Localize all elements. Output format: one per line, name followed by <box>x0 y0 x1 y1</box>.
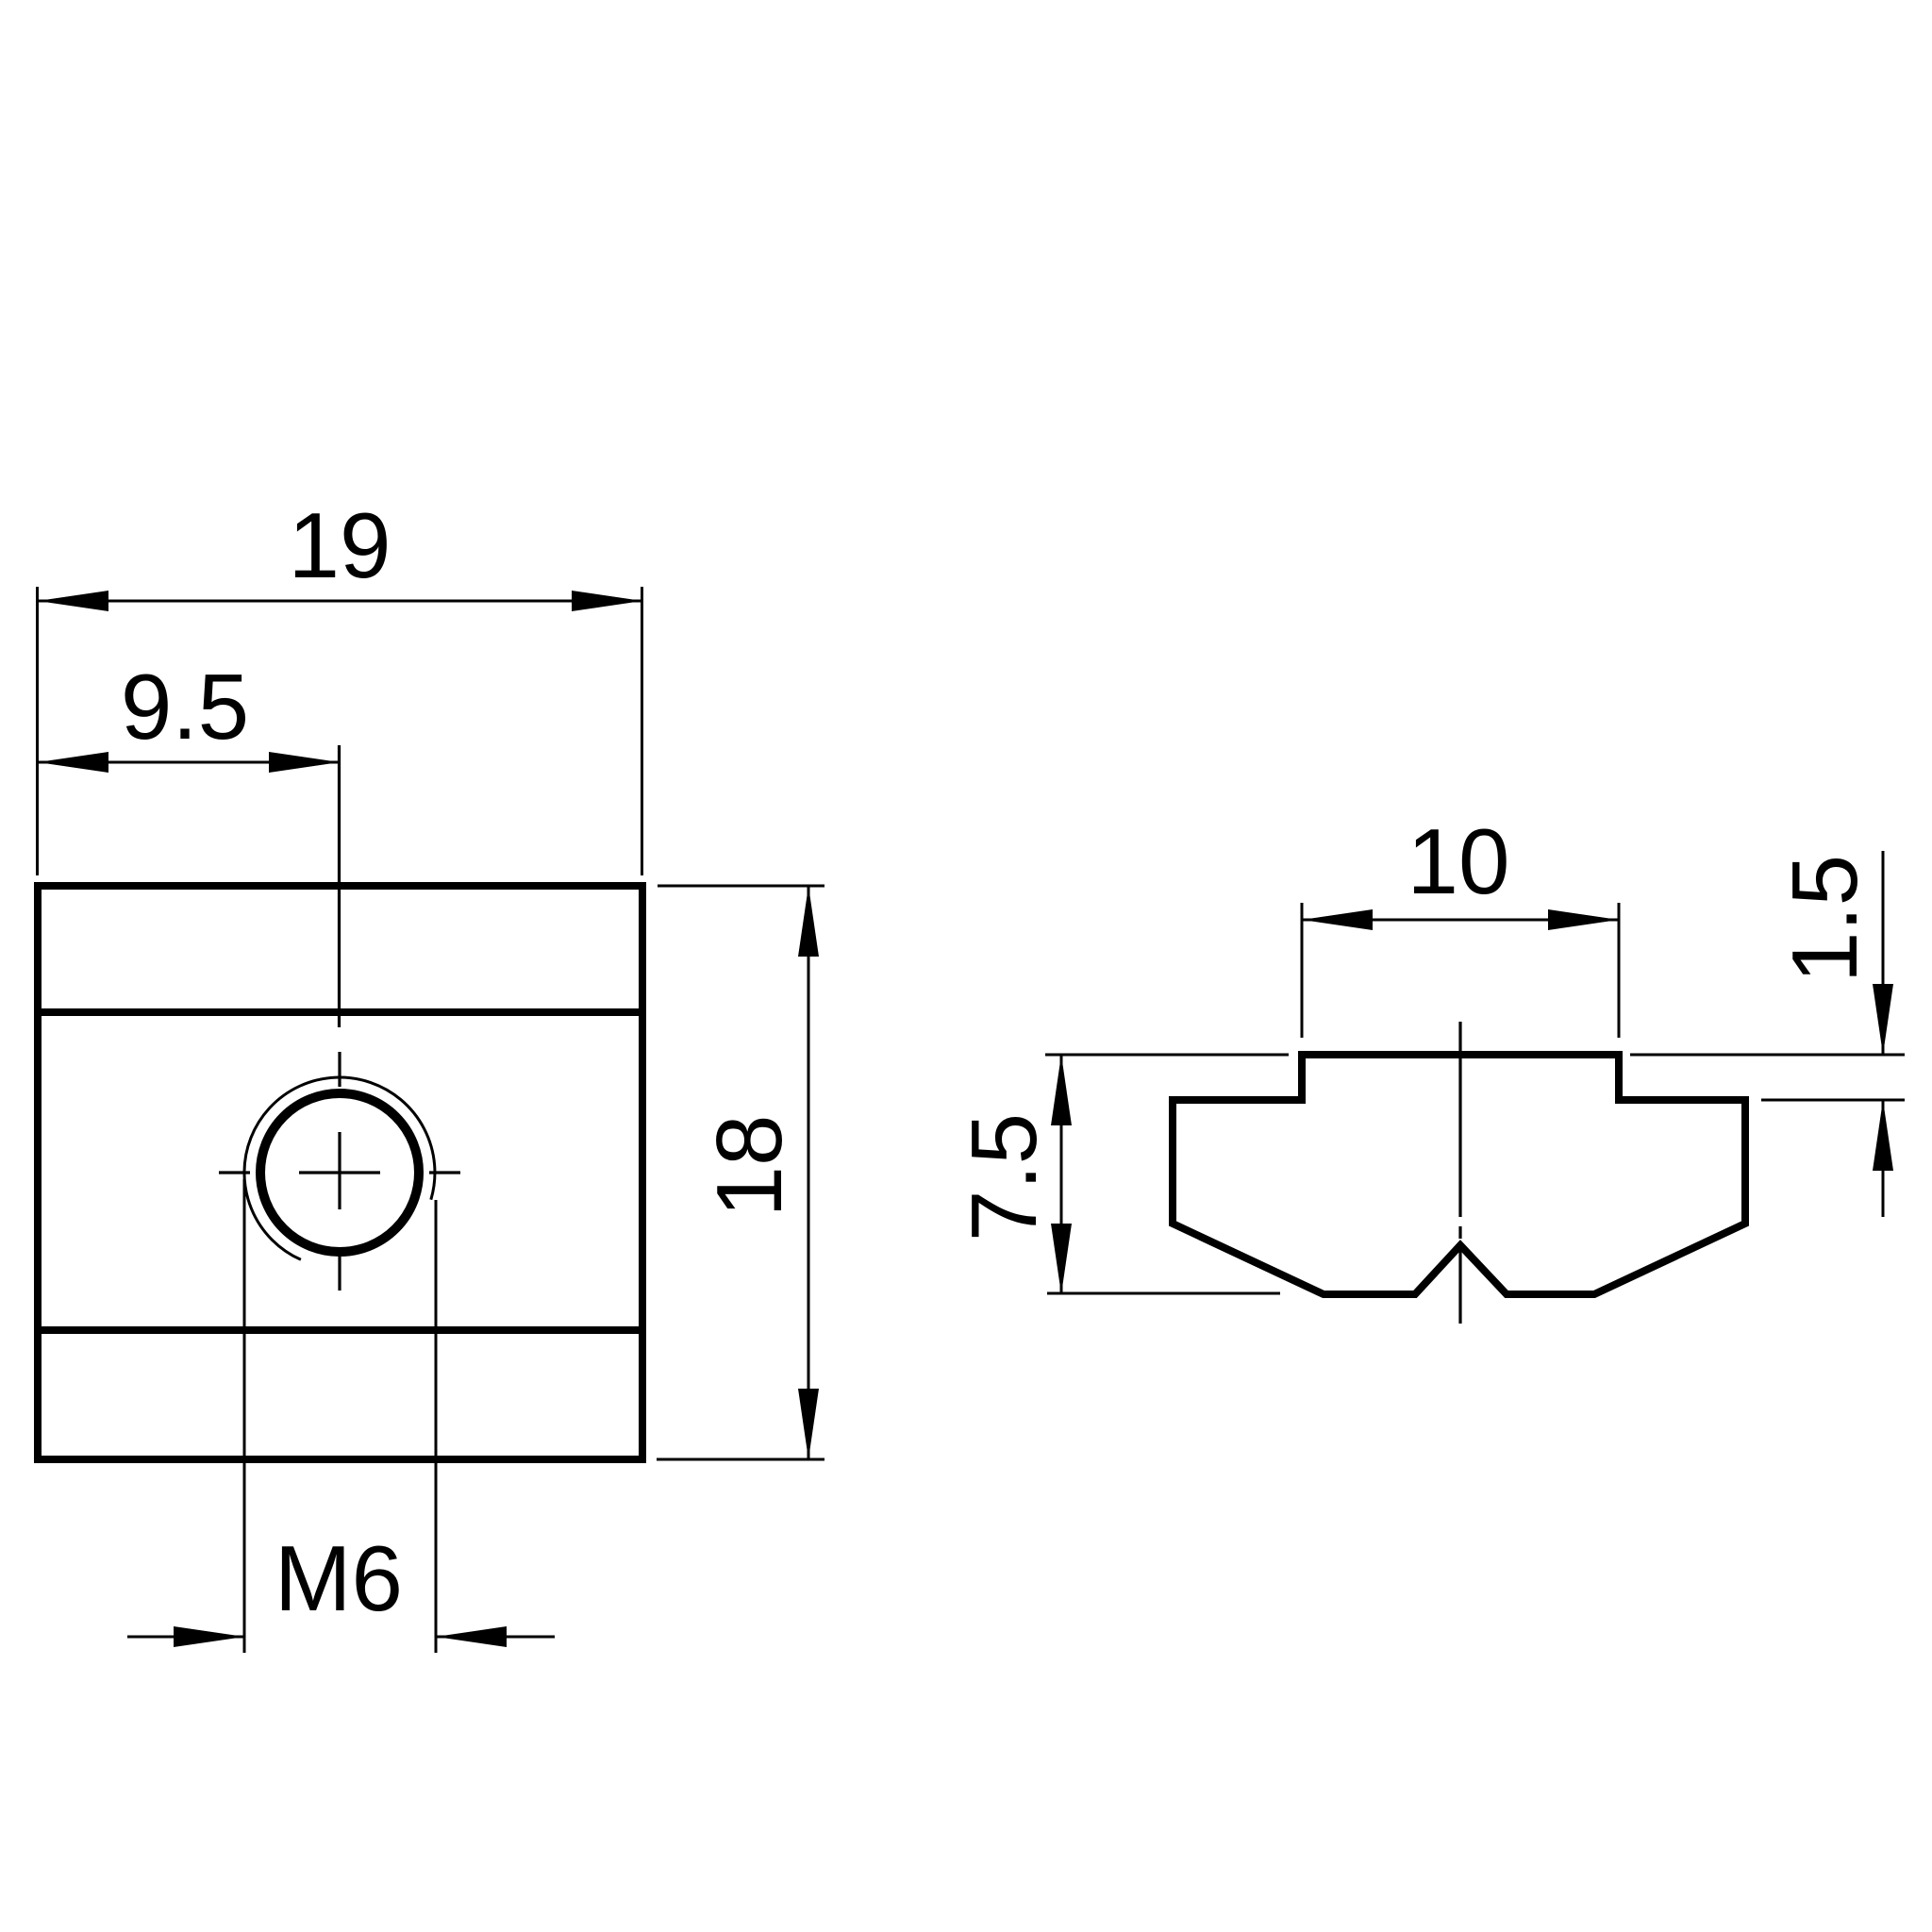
dimension 9.5 arrow right <box>269 752 340 773</box>
dimension 19 extension line left <box>36 587 39 875</box>
dimension 10 line <box>1302 919 1619 922</box>
vertical centreline through view <box>338 745 341 1027</box>
dimension 10 extension line left <box>1301 903 1304 1038</box>
dimension 18 extension line bottom <box>657 1458 824 1461</box>
dimension 18 line <box>808 886 810 1459</box>
dimension 7.5 extension line top <box>1045 1054 1289 1057</box>
thread major-diameter arc (thin, 3/4 circle) <box>244 1077 435 1259</box>
dimension 9.5 arrow left <box>38 752 108 773</box>
dimension 10 arrow right <box>1548 909 1619 930</box>
profile vertical centreline (dash-dot) <box>1458 1022 1461 1217</box>
nut body outline (top view) <box>38 886 642 1459</box>
dimension 18 arrow top <box>798 886 819 957</box>
dimension 19 arrow left <box>38 591 108 611</box>
dimension 7.5 arrow bottom <box>1051 1224 1072 1294</box>
svg-text:7.5: 7.5 <box>952 1113 1056 1241</box>
dimension M6 extension line left <box>243 1179 246 1653</box>
lower slot edge line <box>34 1326 646 1334</box>
svg-text:1.5: 1.5 <box>1773 855 1876 983</box>
dimension 9.5 line <box>38 761 340 764</box>
dimension 1.5 arrow lower (pointing up) <box>1873 1100 1893 1171</box>
tapped hole M6 (thick circle) <box>260 1093 419 1252</box>
dimension M6 line left part <box>127 1636 244 1639</box>
dimension 18 arrow bottom <box>798 1389 819 1459</box>
dimension 7.5 line <box>1060 1055 1063 1294</box>
svg-text:10: 10 <box>1407 809 1509 913</box>
upper slot edge line <box>34 1008 646 1016</box>
dimension 1.5 extension line upper <box>1630 1054 1905 1057</box>
svg-text:18: 18 <box>697 1114 801 1217</box>
dimension 1.5 line upper <box>1882 851 1885 1055</box>
dimension M6 arrow left (pointing right) <box>174 1626 244 1647</box>
dimension 10 arrow left <box>1302 909 1373 930</box>
dimension 1.5 arrow upper (pointing down) <box>1873 984 1893 1055</box>
svg-text:M6: M6 <box>275 1526 403 1630</box>
svg-text:19: 19 <box>288 493 391 597</box>
dimension 19 extension line right <box>641 587 643 875</box>
centre mark vertical (through hole) <box>338 1052 341 1087</box>
dimension 19 line <box>38 600 642 603</box>
dimension M6 line right part <box>436 1636 555 1639</box>
dimension M6 arrow right (pointing left) <box>436 1626 507 1647</box>
dimension 1.5 extension line lower <box>1761 1099 1905 1102</box>
dimension 19 arrow right <box>572 591 642 611</box>
dimension 7.5 extension line bottom <box>1047 1292 1280 1295</box>
svg-text:9.5: 9.5 <box>121 655 249 758</box>
centre mark horizontal (through hole) <box>219 1171 250 1174</box>
dimension 10 extension line right <box>1618 903 1621 1038</box>
dimension 1.5 line lower <box>1882 1100 1885 1217</box>
nut profile outline (side view) <box>1173 1055 1745 1294</box>
dimension 7.5 arrow top <box>1051 1055 1072 1125</box>
dimension 18 extension line top <box>658 885 824 888</box>
dimension M6 extension line right <box>435 1200 438 1653</box>
